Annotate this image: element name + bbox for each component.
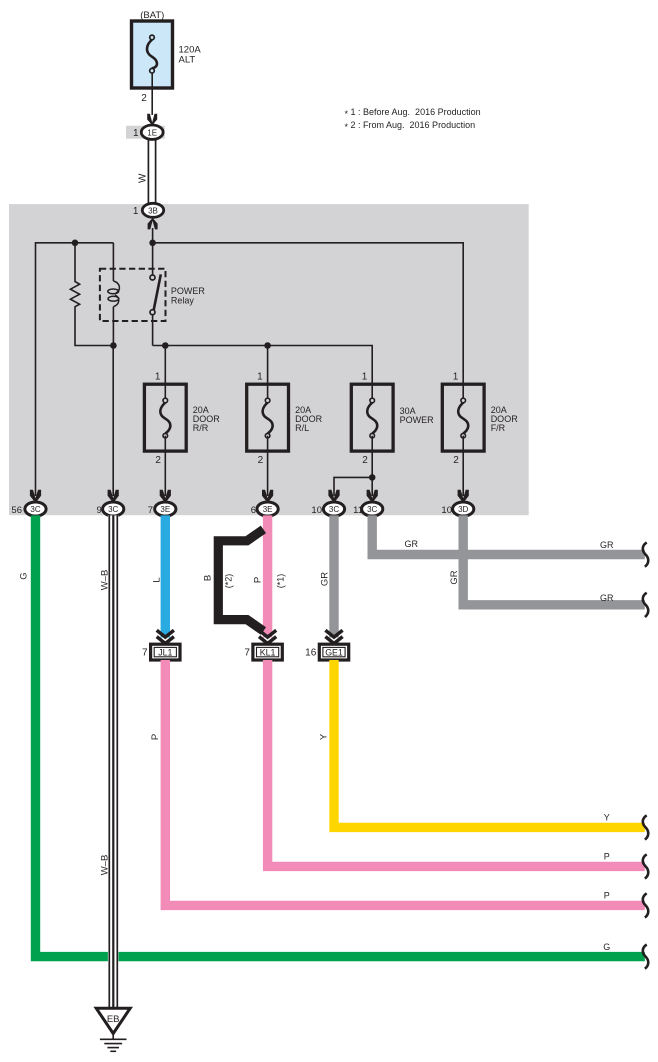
wire GR (gray) from 3C pin 10 to GE1 xyxy=(329,515,338,637)
svg-text:3C: 3C xyxy=(30,505,40,514)
svg-text:Y: Y xyxy=(604,813,610,823)
arrow into 3C pin 11 xyxy=(367,490,378,503)
svg-text:P: P xyxy=(604,852,610,862)
svg-text:7: 7 xyxy=(142,647,148,658)
svg-text:B: B xyxy=(202,575,213,581)
wire to fuse R/L xyxy=(267,346,269,401)
arrow into 1E xyxy=(147,114,157,126)
wire P (pink) from 3E pin 6 to KL1 xyxy=(263,515,272,637)
svg-text:2: 2 xyxy=(141,93,147,104)
svg-text:3E: 3E xyxy=(160,505,170,514)
relay coil xyxy=(108,281,120,346)
svg-text:GE1: GE1 xyxy=(325,648,343,658)
svg-text:3B: 3B xyxy=(148,207,158,216)
svg-text:3E: 3E xyxy=(263,505,273,514)
off-page squiggle gray lower xyxy=(643,593,648,617)
svg-text:3C: 3C xyxy=(329,505,339,514)
wire coil to connector 3C pin 9 xyxy=(112,346,114,497)
arrow into 3C pin 56 xyxy=(30,490,41,503)
svg-text:F/R: F/R xyxy=(491,423,506,433)
svg-text:7: 7 xyxy=(244,647,250,658)
arrow into 3E pin 6 xyxy=(262,490,273,503)
wire P (pink) from KL1 to right edge xyxy=(268,660,645,866)
resistor (relay parallel resistor) xyxy=(70,243,113,346)
node POWER fuse output junction xyxy=(369,474,376,481)
wire Y (yellow) from GE1 to right edge xyxy=(334,660,645,827)
svg-text:1: 1 xyxy=(133,206,139,217)
fuse 20A DOOR R/R xyxy=(144,372,220,466)
node coil/resistor junction xyxy=(110,342,117,349)
svg-text:W–B: W–B xyxy=(99,570,110,591)
fuse 30A POWER xyxy=(351,372,434,466)
off-page squiggle green xyxy=(643,945,648,969)
svg-text:16: 16 xyxy=(305,647,317,658)
svg-text:1: 1 xyxy=(453,372,459,383)
relay POWER Relay dashed box xyxy=(100,269,166,321)
svg-text:3C: 3C xyxy=(367,505,377,514)
svg-text:2: 2 xyxy=(258,455,264,466)
arrow into KL1 (double chevron) xyxy=(259,630,276,643)
off-page squiggle pink upper xyxy=(643,854,648,878)
wire 3B to bus xyxy=(152,228,154,243)
wire bus A (coil feed) xyxy=(36,243,114,496)
svg-text:1E: 1E xyxy=(147,128,157,137)
svg-text:3D: 3D xyxy=(458,505,468,514)
arrow into JL1 (double chevron) xyxy=(157,630,174,643)
wire fuse F/R to connector 3D pin 10 xyxy=(462,436,464,496)
connector 3C pin 11 xyxy=(362,502,383,516)
svg-text:(*2): (*2) xyxy=(224,574,234,589)
svg-text:R/L: R/L xyxy=(295,423,309,433)
wire GR (gray) from 3D pin 10 to right edge xyxy=(463,515,645,604)
off-page squiggle yellow xyxy=(643,815,648,839)
svg-text:Y: Y xyxy=(319,733,330,740)
svg-text:1: 1 xyxy=(257,372,263,383)
node junction on bus A xyxy=(72,240,79,247)
connector 3C pin 10 xyxy=(323,502,344,516)
svg-text:9: 9 xyxy=(97,505,102,516)
arrow into 3C pin 10 xyxy=(328,490,339,503)
arrow into 3B (pointing up) xyxy=(148,218,158,230)
svg-text:GR: GR xyxy=(600,540,614,550)
off-page squiggle gray upper xyxy=(643,542,648,566)
svg-text:1: 1 xyxy=(155,372,161,383)
wire W from 1E to 3B (white wire, double line) xyxy=(148,139,155,203)
svg-text:KL1: KL1 xyxy=(260,648,276,658)
svg-text:POWER: POWER xyxy=(400,415,435,425)
arrow into 3D pin 10 xyxy=(458,490,469,503)
node fuse R/L tap xyxy=(264,342,271,349)
svg-text:Relay: Relay xyxy=(171,296,195,306)
wire fuse R/R to connector 3E pin 7 xyxy=(164,436,166,496)
svg-text:EB: EB xyxy=(107,1014,120,1025)
svg-text:3C: 3C xyxy=(108,505,118,514)
wire coil top branch xyxy=(112,243,114,281)
wire L (light blue) from 3E pin 7 to JL1 xyxy=(161,515,170,637)
junction block (gray box) xyxy=(9,204,529,515)
svg-text:W–B: W–B xyxy=(99,855,110,876)
connector 3C pin 9 xyxy=(103,502,124,516)
svg-text:10: 10 xyxy=(441,505,452,516)
fusible link 120A ALT xyxy=(132,21,173,88)
connector GE1 xyxy=(319,644,348,660)
node bus B junction xyxy=(149,240,156,247)
svg-text:56: 56 xyxy=(11,505,22,516)
relay switch xyxy=(150,243,161,346)
svg-text:(*1): (*1) xyxy=(276,574,286,589)
svg-text:2: 2 xyxy=(155,455,161,466)
wire W-B from 3C pin 9 to ground (white backing) xyxy=(108,515,119,1008)
wire bus B (battery feed to F/R fuse) xyxy=(153,243,464,400)
connector JL1 xyxy=(151,644,180,660)
wire B (black, *2 alternative) xyxy=(218,529,263,631)
svg-text:W: W xyxy=(137,173,148,183)
svg-text:R/R: R/R xyxy=(193,423,209,433)
wire bus C (relay output to fuses) xyxy=(153,346,373,401)
svg-text:ALT: ALT xyxy=(179,55,196,66)
wire W-B triple line xyxy=(109,515,117,1008)
connector 1E xyxy=(141,125,163,139)
arrow into GE1 (double chevron) xyxy=(325,630,342,643)
wire ALT to 1E xyxy=(151,73,153,115)
svg-text:10: 10 xyxy=(311,505,322,516)
connector KL1 xyxy=(253,644,282,660)
fuse 20A DOOR F/R xyxy=(442,372,518,466)
connector 3B xyxy=(142,203,163,217)
svg-text:2: 2 xyxy=(362,455,368,466)
wire fuse R/L to connector 3E pin 6 xyxy=(267,436,269,496)
wire to fuse R/R xyxy=(164,346,166,401)
svg-text:L: L xyxy=(151,577,162,582)
off-page squiggle pink lower xyxy=(643,893,648,917)
arrow into 3E pin 7 xyxy=(160,490,171,503)
wire GR (gray) from 3C pin 11 to right edge xyxy=(372,515,645,554)
connector 3E pin 7 xyxy=(155,502,176,516)
svg-text:G: G xyxy=(19,572,30,579)
node fuse R/R tap xyxy=(162,342,169,349)
arrow into 3C pin 9 xyxy=(108,490,119,503)
wire P (pink) from JL1 to right edge xyxy=(165,660,645,905)
svg-text:P: P xyxy=(252,577,263,583)
svg-text:1: 1 xyxy=(362,372,368,383)
ground stem xyxy=(112,1034,114,1040)
svg-text:7: 7 xyxy=(148,505,153,516)
svg-text:GR: GR xyxy=(600,593,614,603)
svg-text:GR: GR xyxy=(404,539,418,549)
svg-text:2: 2 xyxy=(453,455,459,466)
svg-text:GR: GR xyxy=(319,572,330,586)
svg-text:GR: GR xyxy=(449,570,460,584)
svg-text:G: G xyxy=(603,942,610,952)
svg-text:JL1: JL1 xyxy=(158,648,172,658)
wire G (green) from 3C pin 56 xyxy=(36,515,645,956)
connector 1E gray band xyxy=(126,126,165,139)
connector 3D pin 10 xyxy=(453,502,474,516)
wire fuse POWER to connectors 3C pin 10 and 11 xyxy=(334,436,372,496)
fuse 20A DOOR R/L xyxy=(247,372,323,466)
connector 3C pin 56 xyxy=(25,502,46,516)
svg-text:1: 1 xyxy=(133,128,139,139)
svg-text:P: P xyxy=(150,734,161,740)
svg-text:P: P xyxy=(604,891,610,901)
ground EB triangle xyxy=(96,1008,130,1033)
connector 3E pin 6 xyxy=(257,502,278,516)
svg-text:6: 6 xyxy=(251,505,256,516)
ground hatch lines xyxy=(100,1039,127,1051)
